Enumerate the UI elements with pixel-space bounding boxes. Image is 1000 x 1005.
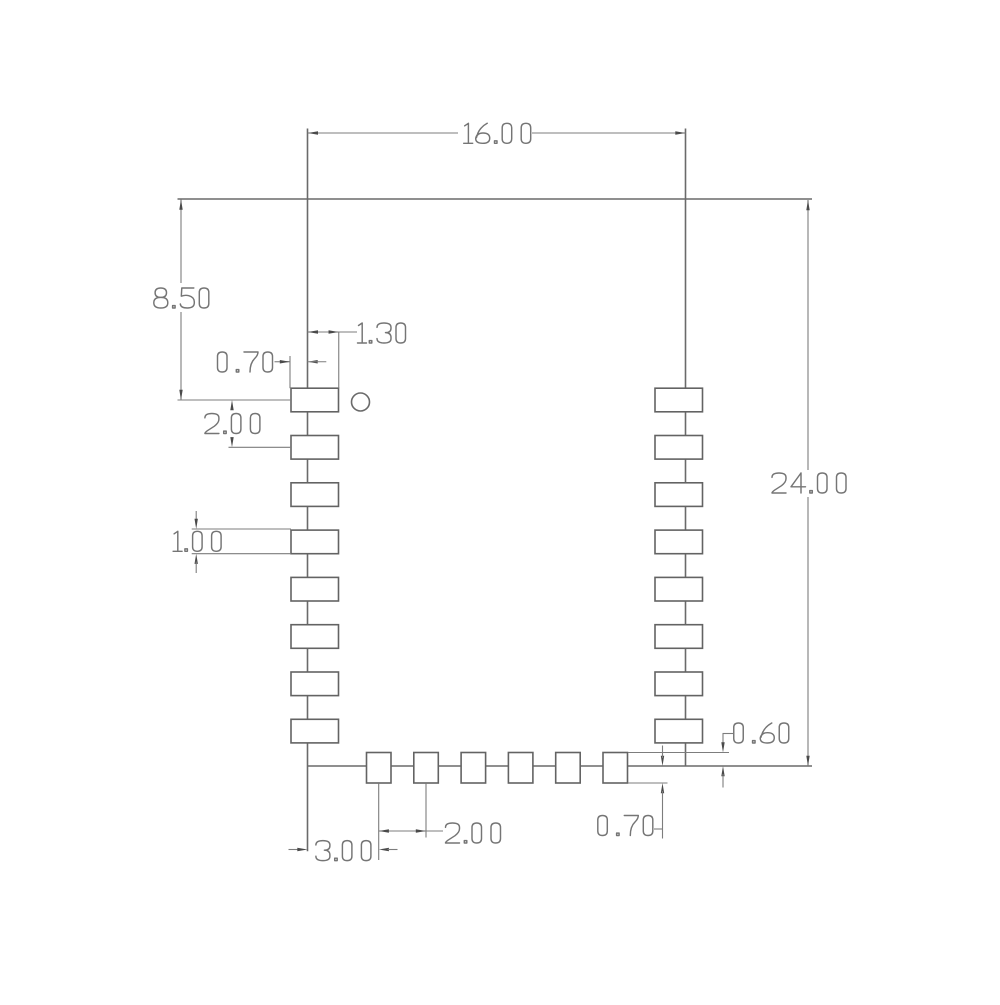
pad R2 [655,436,703,460]
dim 8.50 line [180,200,182,284]
dim 8.50 bottom arrow [179,390,182,400]
dim 2.00 left bottom arrow [230,437,233,447]
dim 0.70 text [218,352,273,372]
dim 0.70 bottom upper arrow [661,756,664,766]
dim 1.30 text [358,323,406,343]
dim 0.70 left tail [275,361,291,363]
dim 16.00 left arrow [308,131,318,134]
dim 16.00 text [464,123,531,143]
pad B6 [603,753,628,784]
dim 1.00 bottom arrow [195,554,198,564]
dim 3.00 text [316,841,371,861]
dim 24.00 line [807,200,809,470]
dim 16.00 right arrow [675,131,685,134]
pad B5 [556,753,581,784]
dim 0.70 bottom lower arrow [661,783,664,793]
dim 1.00 bottom arrow tail [195,562,197,574]
pad B1 [367,753,392,784]
pad L6 [291,625,339,649]
dim 24.00 text [772,473,846,493]
pad L7 [291,672,339,696]
pad R1 [655,388,703,412]
dim 0.70 bottom lower tail [662,791,664,839]
dim 2.00 bottom right arrow [416,829,426,832]
pad L5 [291,577,339,601]
pad R8 [655,719,703,743]
pad R5 [655,577,703,601]
dim 1.30 left arrow [308,330,318,333]
pad L8 [291,719,339,743]
dim 1.30 extension line [338,332,340,388]
pad B4 [508,753,533,784]
dim 1.00 top arrow [195,519,198,529]
dim 0.60 lower tail [722,774,724,788]
module top edge [178,198,813,200]
pad L3 [291,483,339,507]
extension line pad B2 center [425,784,427,838]
pad R6 [655,625,703,649]
dim 3.00 left arrow [297,848,307,851]
dim 3.00 right tail [388,849,398,851]
pad B2 [414,753,439,784]
dim 0.60 upper arrow [721,742,724,752]
dim 2.00 bottom line [379,830,443,832]
dim 2.00 left top arrow [230,400,233,410]
dim 1.30 line [308,331,358,333]
dim 3.00 right arrow [379,848,389,851]
extension line pad tops right [628,752,729,754]
pad R3 [655,483,703,507]
pad L1 [291,388,339,412]
pad R4 [655,530,703,554]
pad R7 [655,672,703,696]
pin1 marker circle [352,393,370,411]
dim 0.60 leader [723,733,734,735]
dim 0.60 upper line [722,734,724,746]
dim 1.00 text [173,531,221,551]
dim 0.70 right arrow [308,360,318,363]
dim 0.70 bottom elbow [654,828,663,830]
extension line pad B1 center [378,784,380,860]
module left edge [307,129,309,852]
dim 1.30 right arrow [329,330,339,333]
dim 1.00 extension top [192,528,291,530]
dim 3.00 left tail [289,849,300,851]
module bottom edge [308,765,813,767]
dim 0.60 text [734,723,789,743]
module right edge [685,129,687,767]
dim 2.00 left text [205,414,260,434]
extension line pad L1 center [178,399,292,401]
dim 0.70 extension line [289,356,291,388]
pad B3 [461,753,486,784]
extension line pad L2 center [229,446,292,448]
dim 2.00 bottom text [446,823,501,843]
dim 1.00 top arrow tail [195,511,197,521]
dim 24.00 top arrow [806,200,809,210]
dim 0.70 bottom text [598,816,653,836]
dim 0.70 right tail [308,361,327,363]
dim 0.70 bottom upper tail [662,746,664,759]
dim 24.00 bottom arrow [806,756,809,766]
extension line pad bottoms right [628,782,668,784]
dim 2.00 bottom left arrow [379,829,389,832]
dim 8.50 text [154,288,209,308]
dim 0.60 lower arrow [721,766,724,776]
pad L4 [291,530,339,554]
dim 1.00 extension bottom [192,553,291,555]
dim 0.70 left arrow [280,360,290,363]
dim 16.00 line [308,132,458,134]
pad L2 [291,436,339,460]
dim 8.50 top arrow [179,200,182,210]
